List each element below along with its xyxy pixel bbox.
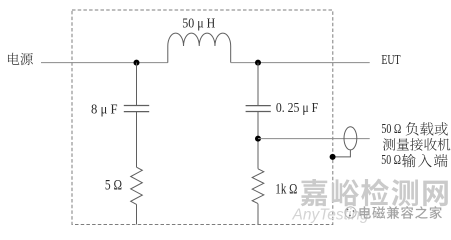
label: port note line1 负载或 [406, 122, 448, 135]
inductor L1 50 uH [168, 33, 231, 63]
node: junction C (measurement tap) [255, 136, 261, 142]
wire: R1 to enclosure bottom [136, 204, 138, 224]
watermark: 嘉峪检测网 [301, 179, 448, 207]
svg-text:5 Ω: 5 Ω [105, 178, 122, 194]
svg-text:1k Ω: 1k Ω [275, 182, 297, 198]
connector: 50 ohm measurement port [344, 127, 357, 150]
node: enclosure bond point [330, 154, 336, 160]
wire: R2 to enclosure bottom [257, 204, 259, 225]
capacitor C1 8 uF [124, 106, 149, 112]
svg-text:50 Ω: 50 Ω [381, 152, 401, 167]
resistor R1 5 ohm [131, 167, 143, 204]
wire: junction A down to C1 [136, 63, 138, 105]
node: junction B (EUT side) [255, 60, 261, 66]
LISN enclosure (dashed box) [72, 10, 333, 225]
logo: EMC-home emblem [345, 207, 356, 218]
svg-text:8 μ F: 8 μ F [91, 101, 118, 116]
wire: C1 to R1 [136, 112, 138, 167]
svg-text:AnyTesting: AnyTesting [292, 206, 369, 223]
resistor R2 1 kohm [252, 169, 264, 204]
watermark: 电磁兼容之家 [359, 206, 442, 219]
wire: C2 down through tap node to R2 [257, 112, 259, 169]
wire: mains input to inductor [41, 62, 168, 64]
label: port note line3 输入端 [402, 154, 447, 167]
wire: inductor to EUT terminal [231, 62, 370, 64]
wire: junction B down to C2 [257, 63, 259, 106]
wire: tap node to 50 ohm port [258, 138, 370, 140]
node: junction A (mains side) [134, 60, 140, 66]
svg-text:50 μ H: 50 μ H [182, 16, 215, 31]
capacitor C2 0.25 uF [246, 106, 271, 112]
label: mains terminal 电源 [8, 53, 33, 65]
svg-text:EUT: EUT [381, 52, 400, 67]
wire: port shell to enclosure bond [333, 150, 351, 157]
svg-text:50 Ω: 50 Ω [381, 121, 401, 136]
svg-text:0. 25 μ F: 0. 25 μ F [276, 101, 318, 116]
label: port note line2 测量接收机 [383, 138, 451, 151]
